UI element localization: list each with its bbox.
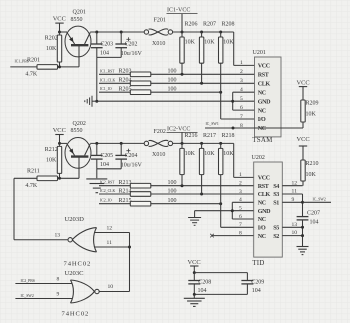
svg-text:104: 104: [100, 51, 109, 57]
svg-text:4.7K: 4.7K: [25, 72, 38, 78]
svg-text:10: 10: [292, 230, 298, 236]
svg-text:10K: 10K: [204, 39, 215, 45]
svg-text:C204: C204: [125, 153, 138, 159]
svg-text:10K: 10K: [306, 172, 317, 178]
svg-text:10: 10: [108, 284, 114, 290]
svg-text:C203: C203: [101, 42, 114, 48]
svg-text:X010: X010: [152, 152, 165, 158]
svg-text:9: 9: [292, 197, 295, 203]
svg-text:5: 5: [239, 206, 242, 212]
svg-text:U203C: U203C: [65, 270, 85, 277]
svg-text:8: 8: [239, 230, 242, 236]
svg-text:10K: 10K: [185, 151, 196, 157]
svg-text:S1: S1: [273, 201, 279, 207]
svg-text:VCC: VCC: [297, 136, 310, 143]
svg-text:10K: 10K: [46, 46, 57, 52]
svg-text:8550: 8550: [71, 17, 83, 23]
svg-text:CLK: CLK: [258, 192, 271, 198]
svg-text:U201: U201: [253, 50, 266, 56]
svg-text:6: 6: [239, 214, 242, 220]
svg-text:12: 12: [107, 226, 113, 232]
svg-text:VCC: VCC: [258, 64, 270, 70]
svg-text:NC: NC: [258, 217, 266, 223]
svg-text:100: 100: [168, 198, 177, 204]
svg-text:U202: U202: [252, 155, 265, 161]
svg-text:104: 104: [100, 162, 109, 168]
svg-text:I/O: I/O: [258, 226, 266, 232]
svg-text:S5: S5: [273, 226, 279, 232]
svg-text:100: 100: [168, 78, 177, 84]
svg-text:74HC02: 74HC02: [62, 311, 90, 318]
svg-text:GND: GND: [258, 209, 271, 215]
svg-text:10u/16V: 10u/16V: [121, 162, 143, 168]
svg-text:C202: C202: [125, 42, 138, 48]
svg-text:3: 3: [239, 189, 242, 195]
svg-text:R209: R209: [306, 101, 319, 107]
svg-text:I/O: I/O: [258, 117, 266, 123]
svg-text:4: 4: [239, 197, 242, 203]
svg-text:R211: R211: [27, 169, 40, 175]
svg-text:VCC: VCC: [188, 259, 201, 266]
svg-text:100: 100: [168, 188, 177, 194]
svg-text:9: 9: [57, 292, 60, 298]
svg-text:IC2_PBS: IC2_PBS: [21, 279, 35, 283]
svg-text:IC1_RST: IC1_RST: [100, 69, 115, 73]
svg-text:Q202: Q202: [73, 121, 86, 127]
svg-text:IC2_IO: IC2_IO: [100, 199, 112, 203]
svg-text:VCC: VCC: [258, 176, 270, 182]
svg-text:NC: NC: [258, 90, 266, 96]
svg-text:IC_SW2: IC_SW2: [21, 294, 34, 298]
svg-text:10K: 10K: [46, 158, 57, 164]
svg-text:3: 3: [240, 78, 243, 84]
svg-text:5: 5: [240, 96, 243, 102]
svg-text:1: 1: [240, 60, 243, 66]
svg-text:100: 100: [168, 69, 177, 75]
svg-text:R207: R207: [203, 21, 216, 27]
svg-text:R212: R212: [45, 147, 58, 153]
svg-text:VCC: VCC: [53, 16, 66, 23]
svg-text:10K: 10K: [185, 39, 196, 45]
svg-text:1: 1: [239, 172, 242, 178]
svg-text:R217: R217: [203, 133, 216, 139]
svg-text:IC1_IO: IC1_IO: [100, 87, 112, 91]
svg-text:IC2_CLK: IC2_CLK: [100, 189, 115, 193]
svg-text:RST: RST: [258, 184, 269, 190]
svg-text:10K: 10K: [204, 151, 215, 157]
svg-text:NC: NC: [258, 201, 266, 207]
svg-text:R208: R208: [222, 21, 235, 27]
svg-text:R210: R210: [306, 161, 319, 167]
svg-text:IC_SW2: IC_SW2: [313, 198, 326, 202]
svg-text:10u/16V: 10u/16V: [121, 51, 143, 57]
svg-text:10K: 10K: [223, 151, 234, 157]
svg-text:VCC: VCC: [53, 127, 66, 134]
svg-text:C205: C205: [101, 153, 114, 159]
svg-text:F202: F202: [154, 129, 166, 135]
svg-text:4.7K: 4.7K: [25, 183, 38, 189]
svg-text:R201: R201: [27, 57, 40, 63]
svg-text:IC2_RST: IC2_RST: [100, 181, 115, 185]
svg-text:S2: S2: [273, 234, 279, 240]
svg-text:8550: 8550: [71, 128, 83, 134]
svg-text:4: 4: [240, 87, 243, 93]
svg-text:U203D: U203D: [65, 216, 85, 223]
svg-text:100: 100: [168, 180, 177, 186]
svg-text:13: 13: [55, 233, 61, 239]
svg-text:C209: C209: [251, 279, 264, 285]
svg-text:2: 2: [239, 181, 242, 187]
svg-text:TSAM: TSAM: [252, 136, 273, 144]
svg-text:11: 11: [292, 189, 298, 195]
svg-text:X010: X010: [152, 41, 165, 47]
svg-text:NC: NC: [258, 126, 266, 132]
svg-text:104: 104: [198, 288, 207, 294]
svg-text:IC1-VCC: IC1-VCC: [167, 8, 190, 14]
svg-text:12: 12: [292, 180, 298, 186]
svg-text:VCC: VCC: [297, 79, 310, 86]
svg-text:IC1_PBS: IC1_PBS: [15, 60, 29, 64]
svg-text:100: 100: [168, 87, 177, 93]
svg-text:S4: S4: [273, 184, 279, 190]
svg-text:8: 8: [57, 277, 60, 283]
svg-text:7: 7: [240, 114, 243, 120]
svg-text:IC_SW1: IC_SW1: [206, 122, 219, 126]
svg-text:CLK: CLK: [258, 82, 271, 88]
svg-text:6: 6: [240, 105, 243, 111]
svg-text:NC: NC: [258, 108, 266, 114]
svg-text:C208: C208: [198, 279, 211, 285]
svg-text:IC2-VCC: IC2-VCC: [167, 127, 190, 133]
svg-text:2: 2: [240, 69, 243, 75]
svg-text:NC: NC: [258, 234, 266, 240]
svg-text:13: 13: [292, 222, 298, 228]
svg-text:R206: R206: [185, 21, 198, 27]
svg-text:IC1_CLK: IC1_CLK: [100, 78, 115, 82]
svg-text:10K: 10K: [306, 112, 317, 118]
svg-text:C207: C207: [307, 210, 320, 216]
svg-text:Q201: Q201: [73, 9, 86, 15]
svg-text:RST: RST: [258, 73, 269, 79]
svg-text:R218: R218: [222, 133, 235, 139]
svg-text:S3: S3: [273, 192, 279, 198]
svg-text:TID: TID: [252, 259, 264, 267]
svg-text:104: 104: [252, 288, 261, 294]
svg-text:11: 11: [107, 240, 113, 246]
svg-text:F201: F201: [154, 17, 166, 23]
svg-text:7: 7: [239, 222, 242, 228]
svg-text:R216: R216: [185, 133, 198, 139]
svg-text:74HC02: 74HC02: [64, 261, 92, 268]
svg-text:R202: R202: [45, 36, 58, 42]
svg-text:GND: GND: [258, 99, 271, 105]
svg-text:104: 104: [310, 219, 319, 225]
svg-text:10K: 10K: [223, 39, 234, 45]
